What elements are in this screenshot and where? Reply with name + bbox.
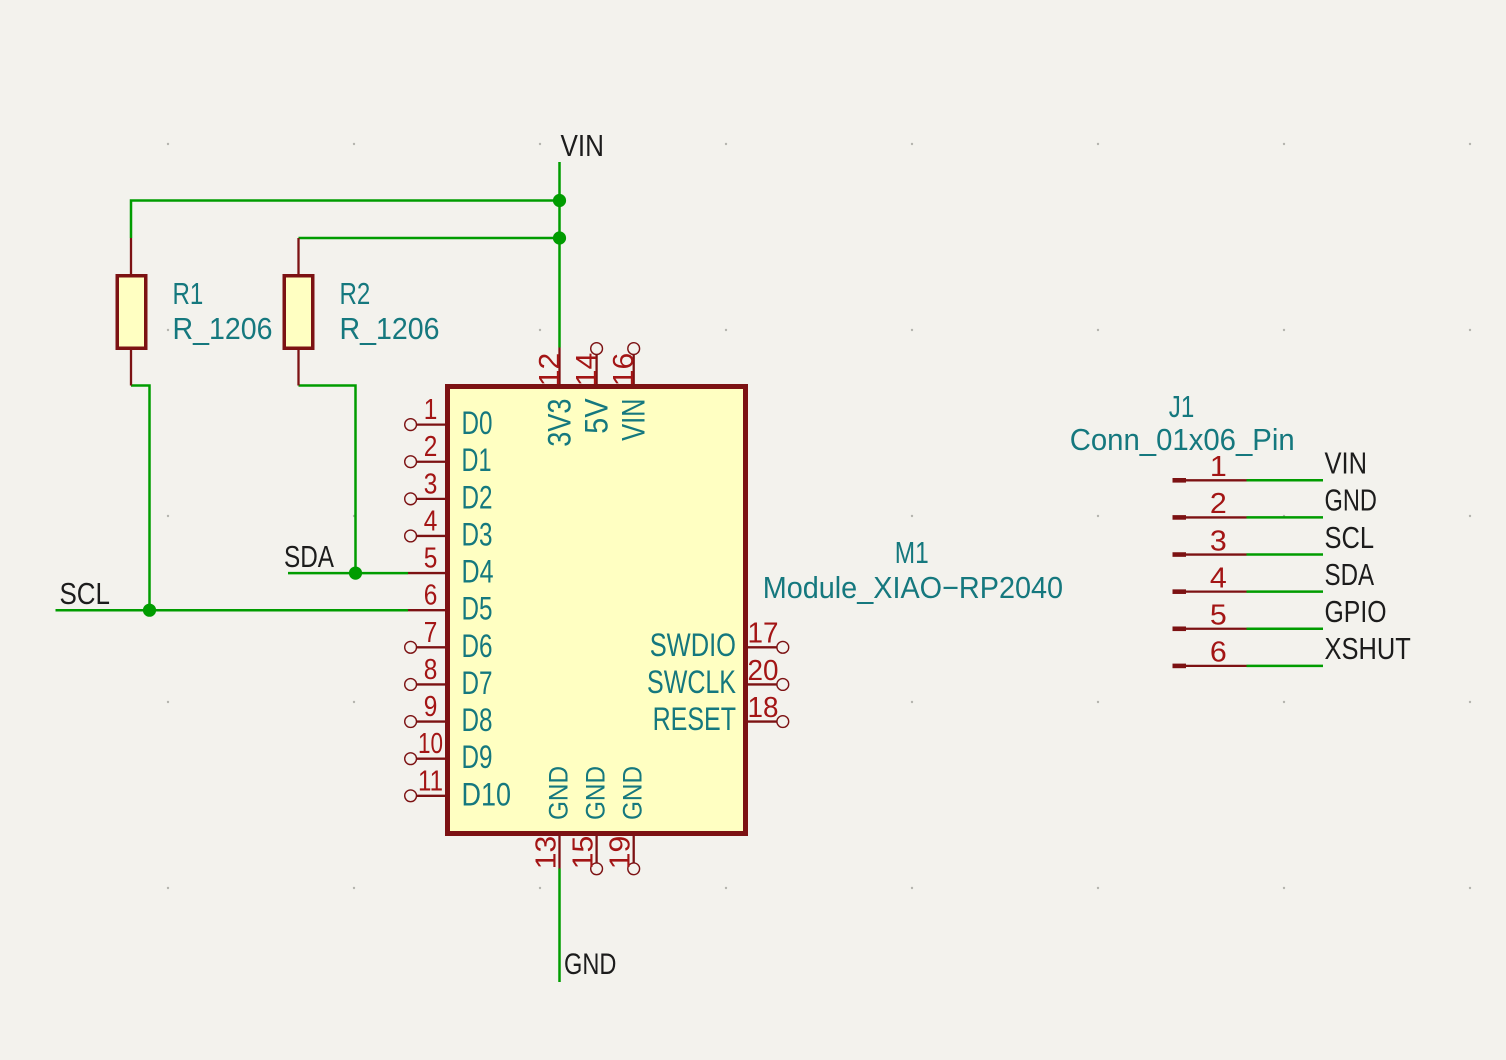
svg-text:D4: D4 [462, 554, 494, 590]
svg-text:R_1206: R_1206 [340, 312, 440, 346]
svg-text:9: 9 [424, 691, 438, 723]
pin 12 3V3 [534, 348, 578, 447]
svg-text:VIN: VIN [616, 399, 652, 441]
svg-text:SDA: SDA [1325, 558, 1375, 592]
J1 pin 2 [1173, 488, 1247, 520]
svg-text:2: 2 [1210, 488, 1227, 520]
svg-text:XSHUT: XSHUT [1325, 632, 1411, 666]
svg-text:1: 1 [424, 394, 438, 426]
svg-text:GND: GND [544, 766, 574, 820]
node GND at J1 [1325, 484, 1377, 518]
svg-text:5: 5 [424, 543, 438, 575]
svg-text:VIN: VIN [561, 129, 605, 163]
svg-text:D9: D9 [462, 739, 493, 775]
svg-text:D8: D8 [462, 702, 493, 738]
svg-text:SWCLK: SWCLK [647, 664, 736, 700]
label J1 value Conn_01x06_Pin [1070, 423, 1295, 457]
label J1 [1169, 390, 1195, 424]
pin 9 D8 [405, 691, 493, 738]
label R2 value R_1206 [340, 312, 440, 346]
svg-text:8: 8 [424, 654, 438, 686]
svg-text:D6: D6 [462, 628, 493, 664]
svg-text:16: 16 [608, 353, 640, 387]
pin 2 D1 [405, 431, 492, 478]
svg-text:12: 12 [534, 353, 566, 387]
wire R2 to SDA net [299, 386, 356, 574]
svg-text:2: 2 [424, 431, 438, 463]
svg-text:15: 15 [568, 836, 600, 870]
svg-text:GND: GND [564, 948, 616, 981]
J1 pin 1 [1173, 451, 1247, 483]
wire R1 to SCL net [131, 386, 150, 611]
svg-text:M1: M1 [895, 536, 929, 570]
svg-text:3: 3 [1210, 525, 1227, 557]
wire VIN to R1 [131, 201, 560, 239]
svg-text:D7: D7 [462, 665, 493, 701]
J1 pin 6 [1173, 637, 1247, 669]
svg-text:6: 6 [424, 580, 438, 612]
svg-text:R2: R2 [340, 277, 371, 311]
svg-text:J1: J1 [1169, 390, 1195, 424]
svg-text:RESET: RESET [653, 701, 736, 737]
pin 6 D5 [408, 580, 493, 627]
svg-text:GPIO: GPIO [1325, 595, 1387, 629]
pin 3 D2 [405, 468, 493, 515]
svg-text:D2: D2 [462, 479, 493, 515]
J1 pin 3 [1173, 525, 1247, 557]
svg-text:5: 5 [1210, 600, 1227, 632]
pin 1 D0 [405, 394, 493, 441]
svg-text:GND: GND [581, 766, 611, 820]
junction at VIN/R2 [553, 231, 566, 244]
wire J1 pin 1 to VIN [1247, 479, 1324, 482]
svg-text:3: 3 [424, 468, 438, 500]
wire J1 pin 6 to XSHUT [1247, 665, 1324, 668]
node SCL [60, 577, 111, 611]
svg-text:SDA: SDA [284, 540, 335, 574]
svg-text:4: 4 [424, 505, 438, 537]
svg-text:4: 4 [1210, 562, 1227, 594]
svg-text:D3: D3 [462, 516, 493, 552]
svg-text:7: 7 [424, 617, 438, 649]
label M1 [895, 536, 929, 570]
svg-text:D5: D5 [462, 591, 493, 627]
pin 5 D4 [408, 543, 494, 590]
wire J1 pin 2 to GND [1247, 516, 1324, 519]
pin 4 D3 [405, 505, 493, 552]
wire SCL [56, 609, 409, 612]
svg-text:GND: GND [618, 766, 648, 820]
svg-text:17: 17 [748, 618, 779, 650]
pin 11 D10 [405, 765, 511, 812]
label M1 value Module_XIAO-RP2040 [763, 571, 1063, 605]
node VIN [561, 129, 605, 163]
svg-text:SCL: SCL [60, 577, 111, 611]
svg-text:13: 13 [531, 836, 563, 870]
svg-text:14: 14 [571, 353, 603, 387]
pin 18 RESET [653, 692, 789, 737]
resistor R1 [117, 238, 146, 386]
svg-text:SWDIO: SWDIO [650, 627, 736, 663]
label R2 [340, 277, 371, 311]
wire J1 pin 3 to SCL [1247, 553, 1324, 556]
svg-text:3V3: 3V3 [542, 399, 578, 447]
pin 19 GND [605, 766, 648, 875]
svg-text:19: 19 [605, 836, 637, 870]
wire J1 pin 4 to SDA [1247, 590, 1324, 593]
node XSHUT at J1 [1325, 632, 1411, 666]
svg-text:5V: 5V [579, 398, 615, 434]
pin 14 5V [571, 343, 615, 434]
svg-text:R_1206: R_1206 [173, 312, 273, 346]
pin 13 GND [531, 766, 574, 869]
svg-text:GND: GND [1325, 484, 1377, 518]
node VIN at J1 [1325, 447, 1368, 481]
svg-text:10: 10 [418, 728, 443, 760]
pin 16 VIN [608, 343, 652, 441]
pin 15 GND [568, 766, 611, 875]
pin 8 D7 [405, 654, 493, 701]
svg-text:SCL: SCL [1325, 521, 1375, 555]
junction SCL [143, 604, 156, 617]
svg-text:Conn_01x06_Pin: Conn_01x06_Pin [1070, 423, 1295, 457]
svg-text:D0: D0 [462, 405, 493, 441]
svg-text:R1: R1 [173, 277, 204, 311]
svg-text:20: 20 [748, 655, 779, 687]
wire GND [558, 869, 561, 983]
label R1 [173, 277, 204, 311]
label R1 value R_1206 [173, 312, 273, 346]
wire SDA [288, 572, 408, 575]
wire VIN vertical [558, 162, 561, 348]
junction SDA [349, 567, 362, 580]
module M1 body [448, 387, 746, 834]
svg-text:18: 18 [748, 692, 779, 724]
svg-text:6: 6 [1210, 637, 1227, 669]
svg-text:D10: D10 [462, 776, 512, 812]
svg-text:Module_XIAO−RP2040: Module_XIAO−RP2040 [763, 571, 1063, 605]
wire VIN to R2 [299, 237, 560, 240]
node GND [564, 948, 616, 981]
junction at VIN/R1 [553, 194, 566, 207]
svg-text:D1: D1 [462, 442, 492, 478]
pin 17 SWDIO [650, 618, 789, 663]
wire J1 pin 5 to GPIO [1247, 628, 1324, 631]
svg-text:VIN: VIN [1325, 447, 1368, 481]
node SDA [284, 540, 335, 574]
pin 10 D9 [405, 728, 493, 775]
pin 20 SWCLK [647, 655, 789, 700]
node SCL at J1 [1325, 521, 1375, 555]
node SDA at J1 [1325, 558, 1375, 592]
resistor R2 [284, 238, 313, 386]
node GPIO at J1 [1325, 595, 1387, 629]
J1 pin 5 [1173, 600, 1247, 632]
pin 7 D6 [405, 617, 493, 664]
svg-text:11: 11 [418, 765, 443, 797]
J1 pin 4 [1173, 562, 1247, 594]
